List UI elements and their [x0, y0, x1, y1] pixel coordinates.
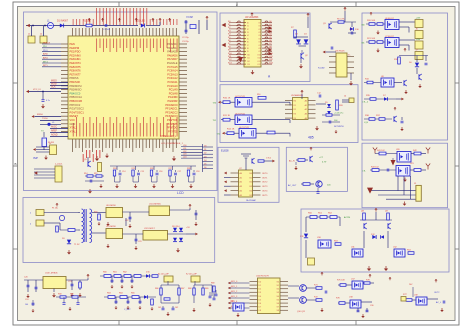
- svg-text:R3: R3: [294, 114, 296, 116]
- svg-text:R1: R1: [294, 105, 296, 107]
- svg-text:+24V: +24V: [416, 18, 421, 20]
- svg-text:PC2/A10: PC2/A10: [167, 84, 178, 88]
- svg-text:INT5: INT5: [43, 65, 48, 67]
- svg-text:D3: D3: [204, 156, 206, 158]
- svg-text:F1 1A: F1 1A: [52, 207, 58, 210]
- svg-text:PA6/AD6: PA6/AD6: [167, 53, 178, 57]
- svg-text:D6: D6: [204, 167, 206, 169]
- svg-text:TX1: TX1: [213, 120, 216, 122]
- svg-text:PB6/OC1B: PB6/OC1B: [70, 99, 83, 103]
- svg-text:U6 TLP521: U6 TLP521: [239, 127, 250, 129]
- svg-text:+C13 4.7u: +C13 4.7u: [334, 113, 343, 115]
- svg-text:PF1/ADC1: PF1/ADC1: [165, 107, 178, 111]
- svg-text:A4: A4: [305, 117, 307, 120]
- svg-text:D5: D5: [204, 164, 206, 166]
- svg-text:PEN_R: PEN_R: [43, 42, 51, 44]
- svg-text:R27: R27: [169, 168, 172, 170]
- svg-text:PG0/WR: PG0/WR: [167, 99, 177, 103]
- svg-text:LD3: LD3: [183, 154, 186, 156]
- svg-text:KEY_1: KEY_1: [231, 286, 238, 288]
- svg-text:R26: R26: [150, 168, 153, 170]
- svg-text:R12 1K: R12 1K: [227, 129, 235, 131]
- svg-text:PF5/TMS: PF5/TMS: [167, 122, 178, 126]
- svg-text:102: 102: [158, 307, 161, 309]
- svg-text:AVCC: AVCC: [51, 126, 57, 129]
- svg-text:PC0/A8: PC0/A8: [169, 91, 178, 95]
- svg-text:U11 LM7805: U11 LM7805: [149, 204, 162, 206]
- svg-text:C1 104: C1 104: [103, 29, 111, 31]
- svg-text:LD4: LD4: [183, 157, 186, 159]
- svg-text:R68: R68: [188, 288, 191, 290]
- svg-text:102: 102: [175, 307, 178, 309]
- svg-text:R58: R58: [58, 294, 61, 296]
- svg-text:AC_OUT: AC_OUT: [288, 184, 297, 187]
- svg-text:R5 4.7K: R5 4.7K: [337, 19, 345, 21]
- svg-text:KEY_0: KEY_0: [231, 281, 238, 283]
- svg-text:EL828: EL828: [221, 149, 229, 153]
- svg-text:INT4: INT4: [43, 61, 48, 63]
- svg-text:K2 JZC-22F: K2 JZC-22F: [186, 274, 198, 276]
- svg-text:OUT0: OUT0: [262, 173, 268, 175]
- svg-text:R0: R0: [294, 100, 296, 102]
- svg-text:OUT2: OUT2: [434, 292, 440, 294]
- svg-text:ATMEGA128_L: ATMEGA128_L: [160, 135, 177, 138]
- svg-text:R20 10K: R20 10K: [367, 20, 376, 22]
- svg-text:PA4/AD4: PA4/AD4: [167, 46, 178, 50]
- svg-text:U_B: U_B: [364, 122, 369, 124]
- svg-text:PF4/TCK: PF4/TCK: [167, 118, 178, 122]
- svg-text:R41 102: R41 102: [377, 150, 385, 152]
- svg-text:U15 HD7279: U15 HD7279: [256, 276, 269, 278]
- svg-text:D2 LED: D2 LED: [137, 21, 145, 23]
- svg-text:PE3/AIN1: PE3/AIN1: [70, 57, 82, 61]
- svg-text:J-LCD1: J-LCD1: [55, 164, 63, 166]
- svg-text:PC6/A14: PC6/A14: [167, 69, 178, 73]
- svg-text:PA5/AD5: PA5/AD5: [167, 50, 178, 54]
- svg-text:Y2 8M: Y2 8M: [186, 17, 193, 19]
- svg-text:C17: C17: [178, 171, 181, 173]
- svg-text:A1: A1: [305, 104, 307, 107]
- svg-text:LD1: LD1: [183, 148, 186, 150]
- svg-text:U7 EL817: U7 EL817: [385, 36, 395, 38]
- svg-text:R15: R15: [94, 173, 97, 175]
- svg-text:PF6/TDO: PF6/TDO: [167, 126, 178, 130]
- svg-text:MOSI: MOSI: [51, 84, 57, 86]
- svg-text:K1 JZC-22F: K1 JZC-22F: [158, 274, 170, 276]
- svg-text:PC5/A13: PC5/A13: [167, 72, 178, 76]
- svg-text:D0: D0: [204, 146, 206, 148]
- svg-text:U9 LM358: U9 LM358: [106, 226, 116, 228]
- svg-text:D1 IN4007: D1 IN4007: [57, 21, 69, 23]
- svg-text:R75 10K: R75 10K: [337, 280, 345, 282]
- svg-text:R24: R24: [113, 168, 116, 170]
- svg-text:AREF: AREF: [51, 130, 58, 133]
- svg-text:PC4/A12: PC4/A12: [167, 76, 178, 80]
- svg-text:PE6/INT6: PE6/INT6: [70, 69, 82, 73]
- svg-text:C_NET: C_NET: [124, 309, 131, 311]
- svg-text:PF0/ADC0: PF0/ADC0: [165, 103, 178, 107]
- svg-text:U12 LM317: U12 LM317: [144, 228, 156, 230]
- svg-text:PC1/A9: PC1/A9: [169, 88, 178, 92]
- svg-text:PG1/RD: PG1/RD: [168, 95, 178, 99]
- svg-text:PG3/TOSC2: PG3/TOSC2: [70, 107, 85, 111]
- svg-text:C22: C22: [125, 220, 128, 222]
- svg-text:U4 TLP521: U4 TLP521: [235, 96, 246, 98]
- svg-text:R2: R2: [294, 109, 296, 111]
- svg-text:U2 ULN2803: U2 ULN2803: [245, 17, 259, 19]
- svg-text:D1: D1: [204, 149, 206, 151]
- svg-text:D2: D2: [204, 153, 206, 155]
- svg-text:R43 102: R43 102: [371, 166, 379, 168]
- svg-text:U5 MAX485: U5 MAX485: [291, 94, 304, 97]
- svg-text:D4: D4: [204, 160, 206, 162]
- svg-text:R68: R68: [211, 283, 214, 285]
- svg-text:PF7/TDI: PF7/TDI: [168, 129, 178, 133]
- svg-text:AC220: AC220: [344, 216, 351, 219]
- svg-text:PA7/AD7: PA7/AD7: [167, 57, 178, 61]
- svg-text:PG2/ALE: PG2/ALE: [167, 61, 178, 65]
- svg-text:AIN1: AIN1: [43, 57, 49, 60]
- svg-text:PE4/INT4: PE4/INT4: [70, 61, 82, 65]
- svg-text:U13 LM7805: U13 LM7805: [45, 273, 58, 275]
- svg-text:485: 485: [308, 136, 314, 140]
- svg-text:R_DAT: R_DAT: [318, 67, 325, 70]
- svg-text:CTL1: CTL1: [266, 158, 272, 160]
- svg-text:T1 9V: T1 9V: [74, 244, 80, 246]
- svg-text:PC3/A11: PC3/A11: [167, 80, 178, 84]
- svg-text:AC_L: AC_L: [436, 301, 442, 304]
- svg-text:RXD0: RXD0: [37, 114, 44, 116]
- svg-text:RESET: RESET: [70, 114, 79, 118]
- svg-text:AIN0: AIN0: [43, 53, 49, 56]
- svg-text:OUT3: OUT3: [262, 186, 268, 188]
- svg-text:4.7u: 4.7u: [46, 100, 50, 102]
- svg-text:LD0: LD0: [183, 145, 186, 147]
- svg-text:A2: A2: [305, 108, 307, 111]
- svg-text:LCD: LCD: [177, 191, 184, 195]
- svg-text:OUT4: OUT4: [262, 191, 268, 193]
- svg-text:A3: A3: [305, 113, 307, 116]
- svg-text:MISO: MISO: [51, 81, 57, 83]
- svg-text:LCD_COMPATIBLE_1: LCD_COMPATIBLE_1: [161, 142, 184, 145]
- svg-text:R10 1K: R10 1K: [223, 98, 231, 100]
- svg-text:104: 104: [25, 304, 28, 306]
- svg-text:PF3/ADC3: PF3/ADC3: [165, 114, 178, 118]
- svg-text:KEY_2: KEY_2: [231, 291, 238, 293]
- svg-text:PEN: PEN: [70, 42, 75, 46]
- svg-text:C15: C15: [141, 171, 144, 173]
- svg-text:R28: R28: [187, 168, 190, 170]
- svg-text:NC7WZ16: NC7WZ16: [334, 126, 345, 128]
- svg-text:D13 D14: D13 D14: [172, 226, 179, 228]
- svg-text:TX0: TX0: [213, 102, 216, 104]
- svg-text:+24V: +24V: [416, 39, 421, 41]
- svg-text:PG4/TOSC1: PG4/TOSC1: [70, 110, 85, 114]
- svg-text:PB3/MISO: PB3/MISO: [70, 88, 82, 92]
- svg-text:R16: R16: [257, 94, 260, 96]
- svg-text:TXD0: TXD0: [42, 118, 48, 120]
- svg-text:AC_N: AC_N: [289, 160, 295, 163]
- svg-text:PB1/SCK: PB1/SCK: [70, 80, 81, 84]
- svg-text:OUT1: OUT1: [262, 177, 268, 179]
- svg-text:VCC_IO: VCC_IO: [33, 89, 41, 91]
- svg-text:KEY_3: KEY_3: [231, 296, 238, 298]
- svg-text:VCC: VCC: [70, 118, 76, 122]
- svg-text:R11 1K: R11 1K: [223, 115, 231, 117]
- svg-text:R66: R66: [155, 288, 158, 290]
- svg-text:C18: C18: [196, 171, 199, 173]
- svg-text:B: B: [15, 162, 17, 166]
- svg-text:PE0/PDI: PE0/PDI: [70, 46, 80, 50]
- svg-text:C16: C16: [159, 171, 162, 173]
- svg-text:PDO: PDO: [43, 50, 48, 52]
- svg-text:PE7/INT7: PE7/INT7: [70, 72, 82, 76]
- svg-text:U6 EL817: U6 EL817: [385, 18, 395, 20]
- svg-text:ISP: ISP: [33, 156, 38, 160]
- svg-text:OUT2: OUT2: [262, 182, 268, 184]
- svg-text:PE1/PDO: PE1/PDO: [70, 50, 81, 54]
- svg-text:PDI: PDI: [43, 46, 47, 48]
- svg-text:4.7V: 4.7V: [322, 162, 327, 164]
- svg-text:+5V: +5V: [186, 227, 190, 229]
- svg-text:Q10 Q11: Q10 Q11: [297, 311, 306, 313]
- svg-text:A0: A0: [305, 99, 307, 102]
- svg-text:AGND: AGND: [51, 134, 58, 137]
- svg-text:SCK: SCK: [51, 87, 56, 89]
- svg-text:TX2: TX2: [217, 133, 220, 135]
- svg-text:PB7/OC2: PB7/OC2: [70, 103, 81, 107]
- svg-text:PE2/AIN0: PE2/AIN0: [70, 53, 82, 57]
- svg-text:R21 10K: R21 10K: [367, 38, 376, 40]
- svg-text:1A 1206AC: 1A 1206AC: [246, 199, 257, 202]
- svg-text:C3 22p: C3 22p: [182, 41, 190, 43]
- svg-text:C23: C23: [138, 241, 141, 243]
- svg-text:C30: C30: [370, 305, 373, 307]
- svg-text:C2 22p: C2 22p: [182, 37, 190, 39]
- svg-text:R59: R59: [70, 294, 73, 296]
- svg-text:PB0/SS: PB0/SS: [70, 76, 79, 80]
- svg-text:LD2: LD2: [183, 151, 186, 153]
- svg-text:R67: R67: [181, 288, 184, 290]
- svg-text:R1 10K: R1 10K: [83, 21, 91, 23]
- svg-text:C24: C24: [25, 299, 28, 301]
- svg-text:U8 LM358: U8 LM358: [106, 205, 116, 207]
- svg-text:PF2/ADC2: PF2/ADC2: [165, 110, 178, 114]
- svg-text:R4: R4: [294, 118, 296, 120]
- svg-text:CTL_2: CTL_2: [362, 102, 369, 104]
- svg-text:PC7/A15: PC7/A15: [167, 65, 178, 69]
- svg-text:GND: GND: [70, 122, 76, 126]
- svg-text:PB4/OC0: PB4/OC0: [70, 91, 81, 95]
- svg-text:U5 TLP521: U5 TLP521: [235, 114, 246, 116]
- svg-text:PE5/INT5: PE5/INT5: [70, 65, 82, 69]
- svg-text:PA3/AD3: PA3/AD3: [167, 42, 178, 46]
- svg-text:C14: C14: [122, 171, 125, 173]
- svg-text:U3 78L05: U3 78L05: [335, 51, 345, 53]
- svg-text:R25: R25: [132, 168, 135, 170]
- svg-text:PB2/MOSI: PB2/MOSI: [70, 84, 82, 88]
- svg-text:OUT5: OUT5: [262, 195, 268, 197]
- svg-text:PB5/OC1A: PB5/OC1A: [70, 95, 83, 99]
- svg-text:R69: R69: [205, 288, 208, 290]
- svg-text:R14: R14: [84, 173, 87, 175]
